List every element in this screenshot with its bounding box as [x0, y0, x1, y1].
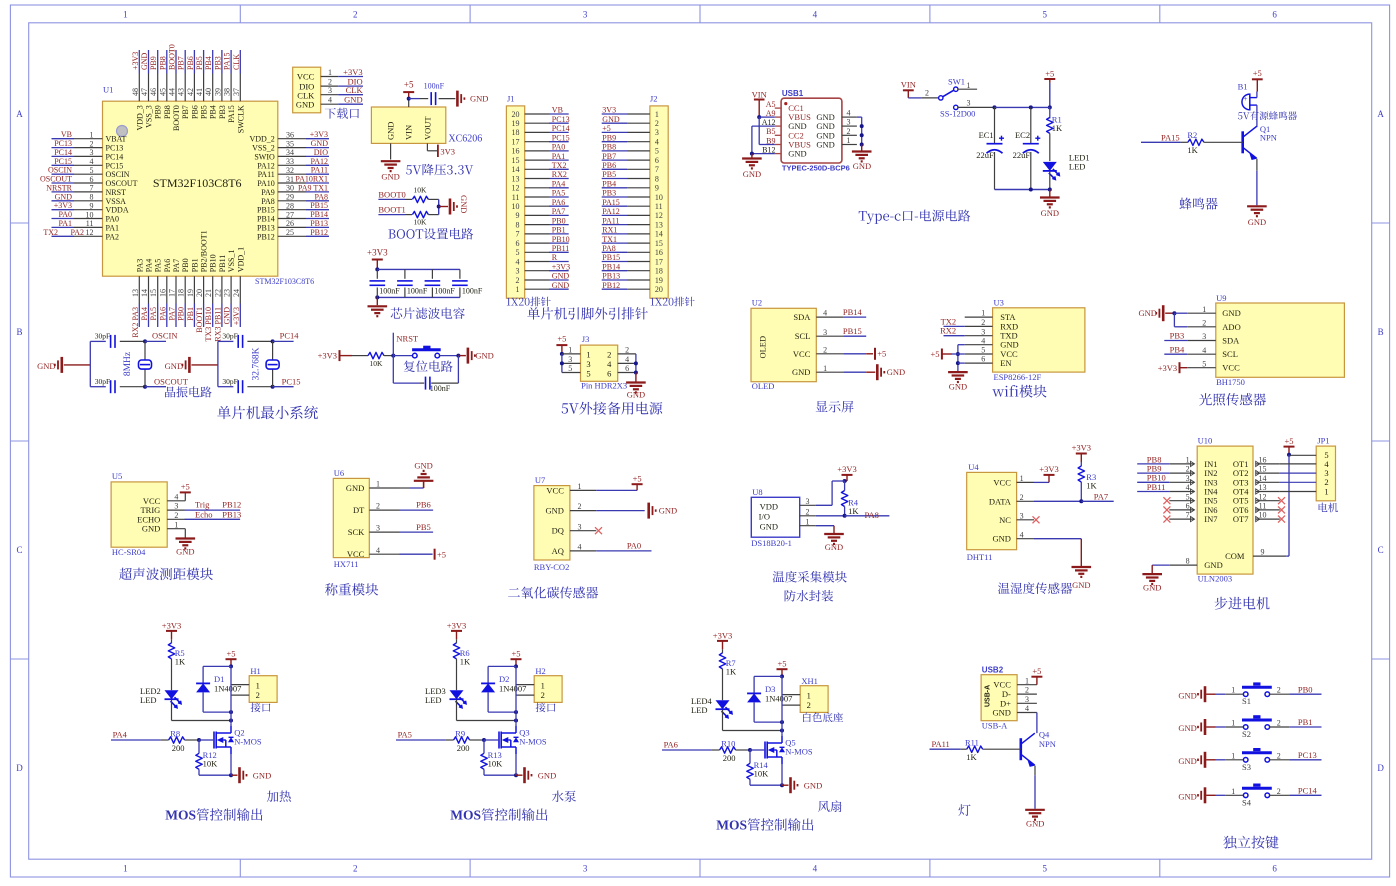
svg-text:PB0: PB0 [177, 307, 186, 321]
svg-text:PA7: PA7 [168, 307, 177, 321]
svg-text:3: 3 [174, 502, 178, 511]
svg-text:RX1: RX1 [602, 226, 617, 235]
LED LED2 [140, 686, 181, 708]
power +3V3 U9 [1158, 362, 1187, 373]
svg-text:+5: +5 [1045, 69, 1054, 79]
svg-text:S3: S3 [1242, 762, 1251, 772]
svg-text:BOOT0: BOOT0 [378, 190, 405, 200]
svg-text:+3V3: +3V3 [131, 52, 140, 70]
svg-text:+5: +5 [1032, 666, 1041, 676]
svg-text:PB7: PB7 [602, 152, 616, 161]
wire USB2 gnd to Q4 [1036, 713, 1038, 734]
svg-text:30: 30 [286, 184, 294, 193]
U10 right pins OT1-7 COM [1225, 456, 1286, 562]
ground USB1 left [742, 159, 762, 180]
svg-text:R11: R11 [965, 737, 979, 747]
svg-text:4: 4 [174, 492, 178, 501]
svg-text:5: 5 [1202, 359, 1206, 368]
svg-text:U7: U7 [535, 475, 545, 485]
capacitor 30pF top X2 [222, 331, 274, 348]
svg-text:GND: GND [165, 361, 183, 371]
svg-text:B: B [16, 327, 22, 337]
J1 pins and nets [512, 106, 571, 294]
svg-text:1: 1 [806, 517, 810, 526]
wire bottom rail [995, 188, 1052, 197]
svg-text:4: 4 [607, 359, 612, 369]
op-amp U4 DHT11 body [967, 462, 1017, 562]
svg-text:3: 3 [1025, 695, 1029, 704]
svg-text:19: 19 [655, 276, 663, 285]
svg-text:A5: A5 [766, 100, 776, 109]
svg-text:PB12: PB12 [602, 281, 620, 290]
download port pins and nets [321, 67, 364, 105]
svg-text:16: 16 [512, 147, 520, 156]
connector JP1 body [1316, 436, 1338, 513]
svg-text:ESP8266-12F: ESP8266-12F [994, 372, 1042, 382]
svg-text:24: 24 [232, 289, 241, 297]
svg-text:PA4: PA4 [145, 259, 154, 273]
svg-text:20: 20 [655, 285, 663, 294]
U1 right pins 25-36 [249, 130, 329, 241]
net PA15 [1141, 132, 1188, 142]
ground power rail [1040, 198, 1060, 219]
svg-text:1: 1 [1202, 305, 1206, 314]
button S3 [1242, 748, 1272, 772]
svg-text:PC13: PC13 [1298, 750, 1317, 760]
capacitor 100nF C4 [452, 269, 483, 297]
svg-text:35: 35 [286, 139, 294, 148]
op-amp U3 ESP8266 body [993, 297, 1085, 382]
USB1 left pins CC1 VBUS GND CC2 VBUS GND [762, 100, 811, 159]
ground S1 [1178, 686, 1216, 702]
svg-text:4: 4 [655, 138, 659, 147]
ground U8 [816, 526, 844, 552]
U1 left pins 1-12 [40, 130, 138, 241]
svg-text:EC1: EC1 [979, 130, 994, 140]
wire VBUS rows [759, 117, 775, 144]
svg-text:PA0: PA0 [106, 215, 120, 224]
svg-text:+5: +5 [1284, 436, 1293, 446]
svg-text:3: 3 [847, 118, 851, 127]
svg-text:1K: 1K [1086, 480, 1097, 490]
svg-text:PA15: PA15 [1161, 132, 1180, 142]
svg-text:S1: S1 [1242, 696, 1251, 706]
svg-text:OSCOUT: OSCOUT [154, 376, 189, 386]
power +5 U6 [400, 549, 447, 560]
svg-text:PB12: PB12 [310, 228, 328, 237]
svg-text:GND: GND [825, 542, 843, 552]
svg-text:S4: S4 [1242, 797, 1252, 807]
svg-text:10K: 10K [203, 759, 219, 769]
svg-text:3: 3 [655, 128, 659, 137]
label 显示屏 [816, 401, 854, 413]
svg-text:GND: GND [414, 460, 432, 470]
svg-text:D2: D2 [499, 674, 509, 684]
svg-text:SW1: SW1 [948, 76, 965, 86]
svg-text:4: 4 [981, 336, 985, 345]
svg-text:C: C [1378, 545, 1384, 555]
svg-text:200: 200 [172, 743, 185, 753]
resistor R11 1K [965, 737, 1021, 761]
svg-text:3: 3 [328, 86, 332, 95]
no-connect IN5-7 [1163, 497, 1170, 522]
U2 pins [792, 309, 866, 378]
svg-text:GND: GND [552, 272, 570, 281]
power +5 stepper [1284, 436, 1295, 457]
svg-text:PB5: PB5 [195, 56, 204, 70]
label 步进电机 [1215, 597, 1270, 610]
wire buzzer to Q1 collector [1256, 105, 1258, 127]
connector USB2 body [981, 665, 1017, 730]
ground crystal X2 [165, 357, 218, 373]
svg-text:TX1: TX1 [602, 235, 617, 244]
resistor R2 1K [1187, 130, 1242, 155]
svg-text:DQ: DQ [552, 526, 564, 536]
svg-text:8: 8 [90, 193, 94, 202]
svg-text:26: 26 [286, 219, 294, 228]
svg-text:5: 5 [90, 166, 94, 175]
wire BOOT0 res to junction [428, 199, 438, 206]
svg-text:GND: GND [140, 52, 149, 70]
svg-text:+5: +5 [777, 659, 786, 669]
svg-text:19: 19 [186, 289, 195, 297]
svg-text:1K: 1K [1187, 145, 1198, 155]
svg-text:2: 2 [607, 349, 611, 359]
crystal 8MHz X1 [123, 341, 152, 386]
svg-text:VIN: VIN [901, 80, 916, 90]
svg-text:32.768K: 32.768K [252, 347, 262, 380]
net PA5 [396, 729, 454, 740]
svg-text:GND: GND [253, 770, 271, 780]
svg-text:PA5: PA5 [149, 307, 158, 321]
svg-text:PB0: PB0 [552, 216, 566, 225]
svg-text:1: 1 [256, 680, 260, 690]
svg-text:Pin HDR2X3: Pin HDR2X3 [581, 381, 627, 391]
svg-text:PA4: PA4 [140, 307, 149, 321]
svg-text:PC14: PC14 [54, 148, 72, 157]
svg-text:1: 1 [376, 480, 380, 489]
resistor R10 200 [720, 739, 765, 763]
ground U6 [400, 460, 434, 488]
ground S3 [1178, 752, 1216, 768]
svg-text:+5: +5 [877, 349, 886, 359]
capacitor 100nF reset [426, 377, 451, 394]
svg-text:PA11: PA11 [258, 170, 275, 179]
svg-text:33: 33 [286, 157, 294, 166]
op-amp U6 HX711 body [333, 468, 369, 569]
svg-text:PB4: PB4 [204, 56, 213, 70]
svg-text:D: D [1377, 763, 1384, 773]
svg-text:PB12: PB12 [257, 232, 275, 241]
svg-text:GND: GND [602, 115, 620, 124]
svg-text:6: 6 [625, 364, 629, 373]
svg-text:14: 14 [512, 165, 520, 174]
svg-text:PB1: PB1 [186, 307, 195, 321]
svg-text:VDD_2: VDD_2 [249, 135, 274, 144]
wire Q4 emitter to gnd [1034, 766, 1036, 809]
svg-text:PA8: PA8 [315, 192, 329, 201]
svg-text:GND: GND [296, 100, 314, 110]
wire to R reset [352, 355, 368, 357]
wire S1 left [1216, 686, 1244, 695]
svg-text:SDA: SDA [793, 312, 811, 322]
svg-text:2: 2 [1202, 318, 1206, 327]
svg-text:GND: GND [1138, 308, 1156, 318]
svg-text:VSS_2: VSS_2 [252, 144, 275, 153]
power +5 H1 [226, 649, 237, 669]
svg-text:PA2: PA2 [71, 228, 85, 237]
svg-text:GND: GND [949, 382, 967, 392]
svg-text:PB9: PB9 [149, 56, 158, 70]
svg-text:PA8: PA8 [602, 244, 616, 253]
svg-text:VSS_3: VSS_3 [145, 105, 154, 128]
svg-text:5: 5 [1186, 492, 1190, 501]
svg-text:PA0: PA0 [627, 541, 641, 551]
power +5 wifi [930, 349, 964, 360]
svg-text:GND: GND [1143, 583, 1161, 593]
wire S3 right net PC13 [1270, 750, 1322, 760]
svg-text:PB3: PB3 [218, 105, 227, 119]
ground U5 [176, 529, 196, 557]
svg-text:PB7: PB7 [181, 105, 190, 119]
svg-text:12: 12 [1259, 492, 1267, 501]
svg-text:PB11: PB11 [1147, 482, 1166, 492]
svg-text:VCC: VCC [546, 485, 564, 495]
U5 pins [137, 492, 184, 533]
svg-text:1K: 1K [1052, 123, 1063, 133]
svg-text:3: 3 [516, 267, 520, 276]
wire crystal rails X2 [218, 341, 234, 386]
net PB14 [843, 307, 863, 317]
connector download port [293, 67, 321, 113]
svg-text:200: 200 [723, 753, 736, 763]
svg-text:5: 5 [586, 369, 590, 379]
svg-text:TX3 PB10: TX3 PB10 [204, 307, 213, 341]
LED LED4 [691, 696, 732, 718]
svg-text:PB4: PB4 [602, 180, 616, 189]
svg-text:COM: COM [1225, 551, 1245, 561]
svg-text:DIO: DIO [314, 148, 328, 157]
label 单片机引脚外引排针 [527, 307, 648, 319]
wire button to right junction [440, 354, 461, 358]
button S4 [1242, 784, 1272, 808]
net PB5 [400, 522, 434, 532]
svg-text:GND: GND [816, 140, 834, 150]
svg-text:VB: VB [552, 106, 563, 115]
svg-text:3: 3 [578, 522, 582, 531]
svg-text:VCC: VCC [347, 549, 365, 559]
svg-text:GND: GND [792, 367, 810, 377]
power +5 U5 [180, 482, 191, 501]
svg-text:1: 1 [655, 110, 659, 119]
svg-text:OSCOUT: OSCOUT [40, 175, 72, 184]
ground bar right of cap [457, 91, 488, 107]
svg-text:30pF: 30pF [222, 377, 237, 386]
svg-text:+3V3: +3V3 [232, 307, 241, 325]
net Trig PB12 [185, 500, 242, 510]
svg-text:J2: J2 [650, 94, 658, 104]
svg-text:GND: GND [1026, 819, 1044, 829]
LED1 [1043, 153, 1090, 190]
svg-text:15: 15 [1259, 465, 1267, 474]
label 超声波测距模块 [119, 568, 213, 580]
J2 pins and nets [602, 106, 663, 294]
net PA0 [596, 541, 651, 551]
svg-text:D1: D1 [214, 674, 224, 684]
U6 pins [346, 480, 400, 560]
net PA6 [662, 739, 720, 750]
svg-text:22uF: 22uF [976, 150, 994, 160]
svg-text:23: 23 [223, 289, 232, 297]
svg-text:+3V3: +3V3 [713, 630, 732, 640]
power +5 rail [1044, 69, 1055, 110]
svg-text:DT: DT [353, 505, 365, 515]
svg-text:7: 7 [90, 184, 94, 193]
svg-text:14: 14 [1259, 474, 1267, 483]
svg-text:13: 13 [131, 289, 140, 297]
label 5V降压3.3V [406, 164, 473, 176]
wire LED to drain node [457, 700, 519, 723]
ground crystal X1 [37, 357, 90, 373]
power +3V3 R6 [447, 620, 466, 643]
svg-text:GND: GND [627, 390, 645, 400]
svg-text:7: 7 [655, 165, 659, 174]
wire wifi gnd/en bus [956, 345, 965, 372]
svg-text:GND: GND [552, 281, 570, 290]
svg-text:2: 2 [1277, 751, 1281, 760]
svg-text:A: A [1377, 109, 1384, 119]
svg-text:8: 8 [1186, 557, 1190, 566]
svg-text:GND: GND [760, 521, 778, 531]
svg-text:3: 3 [376, 524, 380, 533]
svg-text:9: 9 [1261, 548, 1265, 557]
connector XH1 body [800, 676, 843, 722]
J3 right pins 2 4 6 [618, 346, 638, 375]
svg-text:1: 1 [1231, 787, 1235, 796]
svg-text:+5: +5 [181, 482, 190, 492]
transistor Q1 NPN [1243, 124, 1277, 160]
svg-text:17: 17 [168, 289, 177, 297]
svg-text:PC15: PC15 [106, 161, 124, 170]
svg-text:PA4: PA4 [113, 729, 128, 739]
wire S4 right net PC14 [1270, 786, 1322, 796]
svg-text:16: 16 [1259, 456, 1267, 465]
svg-text:+3V3: +3V3 [318, 350, 337, 360]
svg-text:VCC: VCC [793, 349, 811, 359]
svg-text:EN: EN [1000, 358, 1011, 368]
svg-text:1: 1 [578, 482, 582, 491]
svg-text:2: 2 [353, 10, 358, 20]
svg-text:PC13: PC13 [106, 144, 124, 153]
svg-text:4: 4 [1202, 346, 1206, 355]
svg-text:PB14: PB14 [310, 210, 328, 219]
svg-text:100nF: 100nF [462, 286, 483, 295]
svg-text:H1: H1 [250, 666, 260, 676]
svg-text:14: 14 [655, 230, 663, 239]
connector J2 body [650, 94, 695, 307]
svg-text:SWIO: SWIO [254, 152, 275, 161]
svg-text:CLK: CLK [232, 54, 241, 70]
svg-text:VDD_3: VDD_3 [135, 105, 144, 130]
svg-text:48: 48 [131, 88, 140, 96]
resistor 10K BOOT1 [412, 211, 428, 226]
svg-text:PA11: PA11 [311, 166, 328, 175]
svg-text:3: 3 [806, 497, 810, 506]
svg-text:4: 4 [813, 864, 818, 874]
svg-text:HX711: HX711 [334, 559, 359, 569]
power +5 OLED [866, 348, 886, 360]
svg-text:C: C [16, 545, 22, 555]
svg-text:LED: LED [140, 695, 157, 705]
svg-text:+3V3: +3V3 [447, 620, 466, 630]
svg-text:GND: GND [55, 192, 73, 201]
switch SW1 SS-12D00 [925, 76, 975, 118]
J3 left pins 1 3 5 [560, 346, 581, 374]
svg-text:Echo: Echo [195, 509, 212, 519]
svg-text:1: 1 [1025, 676, 1029, 685]
svg-text:3: 3 [583, 10, 588, 20]
svg-text:PA12: PA12 [602, 207, 620, 216]
svg-text:PB1: PB1 [190, 258, 199, 272]
svg-text:GND: GND [223, 307, 232, 325]
svg-text:2: 2 [1277, 719, 1281, 728]
diode D1 1N4007 [196, 666, 241, 714]
label 蜂鸣器 [1179, 198, 1217, 210]
svg-text:2: 2 [376, 502, 380, 511]
svg-text:VDDA: VDDA [106, 206, 129, 215]
svg-text:10K: 10K [414, 218, 428, 227]
svg-text:20: 20 [512, 110, 520, 119]
svg-text:GND: GND [1178, 723, 1196, 733]
svg-text:N-MOS: N-MOS [519, 736, 547, 746]
svg-text:27: 27 [286, 210, 294, 219]
svg-text:PB3: PB3 [1170, 331, 1185, 341]
svg-text:1K: 1K [175, 657, 186, 667]
svg-text:PB14: PB14 [602, 262, 620, 271]
svg-text:I/O: I/O [759, 511, 770, 521]
svg-text:32: 32 [286, 166, 294, 175]
svg-text:PB11: PB11 [218, 255, 227, 273]
wire S2 left [1216, 719, 1244, 728]
svg-text:+5: +5 [404, 80, 414, 90]
svg-text:PB12: PB12 [222, 500, 241, 510]
wire to capacitor [409, 98, 429, 100]
svg-text:PB15: PB15 [310, 201, 328, 210]
svg-text:10K: 10K [370, 359, 384, 368]
svg-text:PB8: PB8 [158, 56, 167, 70]
svg-text:10: 10 [655, 193, 663, 202]
svg-text:21: 21 [204, 289, 213, 297]
svg-text:+3V3: +3V3 [837, 464, 856, 474]
ground USB1 right [852, 152, 872, 172]
svg-text:BOOT0: BOOT0 [168, 44, 177, 70]
svg-text:1: 1 [1186, 456, 1190, 465]
svg-text:+3V3: +3V3 [310, 130, 328, 139]
svg-text:100nF: 100nF [407, 286, 428, 295]
power +5 buzzer [1252, 68, 1263, 91]
svg-text:40: 40 [204, 88, 213, 96]
svg-text:1: 1 [1231, 751, 1235, 760]
svg-text:PA9: PA9 [261, 188, 275, 197]
svg-text:SS-12D00: SS-12D00 [940, 109, 975, 119]
svg-text:VSSA: VSSA [106, 197, 127, 206]
label 光照传感器 [1199, 393, 1266, 406]
svg-text:PA7: PA7 [172, 259, 181, 273]
ground OLED [866, 364, 905, 380]
U8 pins [800, 497, 816, 526]
svg-text:PB7: PB7 [177, 56, 186, 70]
ground S4 [1178, 787, 1216, 803]
